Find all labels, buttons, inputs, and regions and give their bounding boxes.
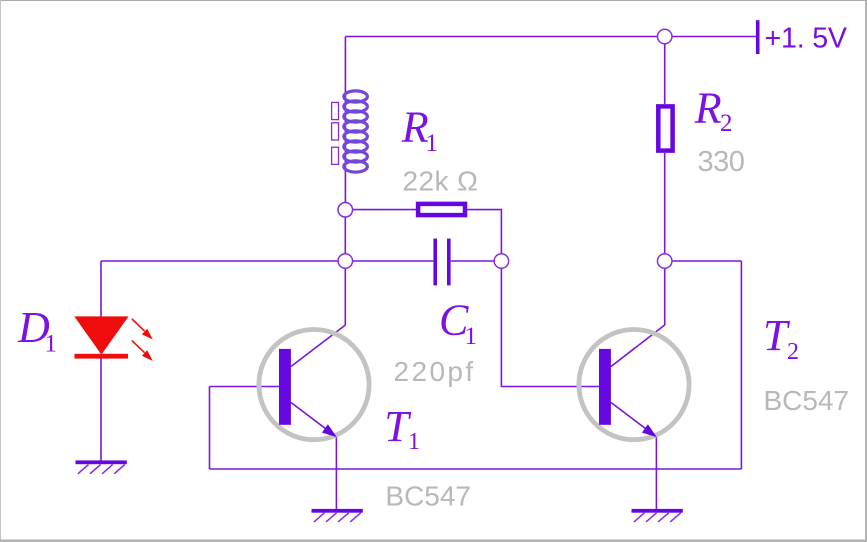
wire rail down through coil to node A [344, 37, 346, 203]
wire feedback loop bottom [210, 468, 742, 470]
svg-text:1: 1 [45, 331, 58, 358]
LED D1 light arrow 2 [132, 340, 153, 361]
wire feedback loop to node D [672, 260, 742, 262]
svg-text:2: 2 [720, 110, 733, 137]
capacitor C1 right plate [447, 239, 451, 286]
svg-text:BC547: BC547 [385, 481, 471, 512]
page border right [865, 0, 867, 542]
wire R2 to rail node E [664, 44, 666, 104]
wire T1 base lead [210, 386, 280, 388]
wire feedback loop right vertical [740, 261, 742, 469]
ground under T2 [632, 509, 683, 522]
node C (cap right junction) [494, 254, 509, 269]
label C1 [439, 296, 477, 351]
wire LED riser [100, 261, 102, 317]
svg-text:+1. 5V: +1. 5V [765, 22, 847, 54]
svg-text:1: 1 [408, 429, 420, 455]
wire LED anode to ground [100, 359, 102, 461]
transistor T2 base bar [599, 349, 611, 425]
node E (rail junction) [657, 29, 672, 44]
node D (T2 collector junction) [657, 254, 672, 269]
power terminal bar +1.5V [756, 20, 760, 54]
inductor R1 coil [344, 91, 368, 172]
wire node C down to T2 base [501, 268, 599, 387]
svg-text:2: 2 [787, 339, 799, 365]
wire top rail [345, 36, 756, 38]
svg-text:BC547: BC547 [764, 385, 850, 416]
node B (cap left junction) [338, 254, 353, 269]
resistor 22k body [418, 204, 465, 215]
wire T1 emitter diagonal [291, 403, 336, 437]
page border left [0, 0, 1, 542]
ground under LED D1 [76, 460, 127, 473]
wire node D down to T2 collector [664, 268, 666, 325]
wire cap C1 right lead [451, 260, 495, 262]
transistor T1 body circle [259, 330, 369, 440]
capacitor C1 left plate [433, 239, 437, 286]
page border bottom [0, 540, 867, 542]
resistor R2 body [658, 106, 672, 150]
wire node A to node B [344, 217, 346, 254]
wire node B down to T1 collector [344, 268, 346, 325]
wire T1 emitter to ground [335, 437, 337, 509]
ground under T1 [312, 509, 363, 522]
wire resistor 22k to drop [465, 210, 501, 254]
wire T2 emitter diagonal [611, 403, 656, 437]
svg-text:1: 1 [426, 130, 439, 157]
LED D1 triangle [74, 316, 128, 354]
transistor T2 emitter arrowhead [642, 424, 657, 437]
svg-text:R: R [694, 84, 722, 133]
transistor T1 base bar [279, 349, 291, 425]
wire cap C1 left lead [353, 260, 434, 262]
label R1 [401, 103, 438, 158]
wire node D up to R2 [664, 153, 666, 254]
wire T2 emitter to ground [655, 437, 657, 509]
label R2 [694, 84, 733, 138]
wire T2 collector diagonal [611, 325, 665, 367]
LED D1 cathode bar [75, 354, 129, 359]
wire feedback loop left vertical [209, 387, 211, 470]
wire LED branch to node B [101, 260, 338, 262]
wire T1 collector diagonal [291, 325, 345, 367]
svg-text:220pf: 220pf [394, 356, 476, 387]
transistor T1 emitter arrowhead [322, 424, 337, 437]
page border top [0, 0, 867, 1]
svg-text:1: 1 [465, 323, 478, 350]
svg-text:22k Ω: 22k Ω [403, 166, 479, 197]
transistor T2 body circle [579, 330, 689, 440]
label D1 [17, 303, 57, 358]
label T2 [763, 311, 799, 365]
svg-text:330: 330 [698, 146, 745, 178]
inductor R1 core marks [332, 102, 339, 164]
wire node A to resistor 22k [353, 209, 419, 211]
LED D1 light arrow 1 [132, 319, 153, 340]
node A (22k junction) [338, 203, 353, 218]
label T1 [384, 402, 420, 455]
